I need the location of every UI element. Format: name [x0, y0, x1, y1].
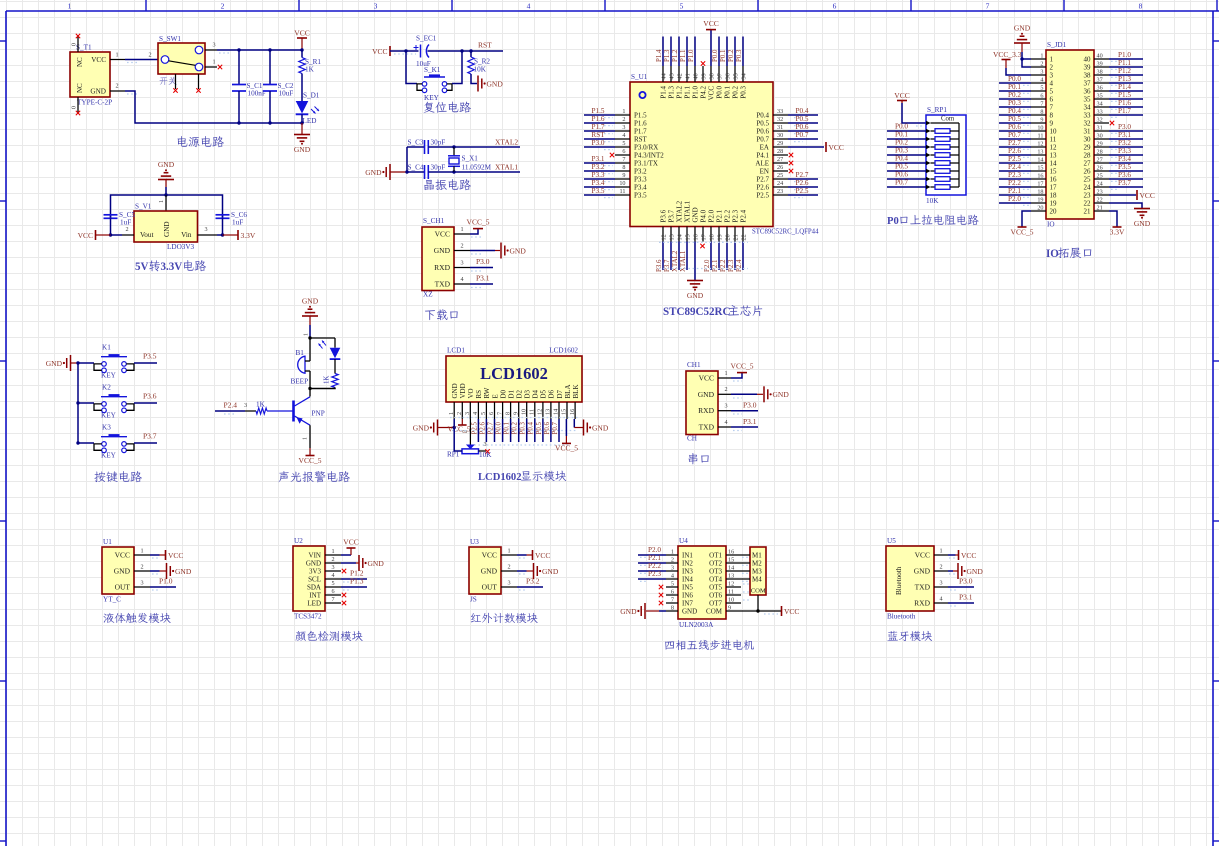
svg-text:35: 35: [1097, 93, 1103, 100]
junction JD1 pin1 gnd: [1020, 57, 1023, 60]
svg-text:31: 31: [1084, 128, 1092, 136]
svg-text:P4.1: P4.1: [756, 152, 769, 160]
svg-text:S_X1: S_X1: [462, 155, 479, 163]
svg-text:P2.2: P2.2: [1008, 179, 1021, 187]
wire CH1 pin4 P3.1: [731, 426, 758, 428]
power port VCC top: [301, 38, 303, 50]
svg-text:BEEP: BEEP: [291, 378, 309, 386]
svg-text:GND: GND: [413, 423, 430, 432]
svg-text:P3.3: P3.3: [634, 176, 647, 184]
svg-text:XZ: XZ: [423, 291, 433, 299]
svg-text:1uF: 1uF: [120, 219, 131, 227]
svg-text:S_JD1: S_JD1: [1047, 41, 1067, 49]
svg-text:GND: GND: [46, 359, 63, 368]
svg-text:3: 3: [212, 42, 215, 49]
S_JD1 pin 32 no-connect: [1110, 121, 1114, 125]
svg-text:16: 16: [728, 549, 734, 556]
svg-text:P3.1: P3.1: [743, 417, 757, 426]
S_SW1 value 开关: [160, 77, 168, 85]
svg-text:38: 38: [1084, 72, 1092, 80]
svg-text:GND: GND: [967, 567, 984, 576]
U2 pin7 no-connect: [342, 601, 346, 605]
svg-text:OT5: OT5: [709, 584, 722, 592]
svg-text:P3.6: P3.6: [1118, 171, 1131, 179]
power port GND alarm top: [302, 315, 318, 317]
svg-text:4: 4: [724, 419, 727, 426]
svg-text:21: 21: [1084, 208, 1092, 216]
svg-text:P3.7: P3.7: [664, 259, 671, 272]
svg-text:LCD1602: LCD1602: [480, 364, 548, 383]
driver U4 ULN2003A body: [678, 546, 726, 619]
wire GND stem to top rail: [165, 180, 167, 188]
svg-text:2: 2: [331, 556, 334, 563]
svg-text:Bluetooth: Bluetooth: [895, 566, 903, 595]
svg-text:0: 0: [71, 43, 78, 46]
svg-text:14: 14: [553, 409, 560, 415]
U2 pin3 no-connect: [342, 569, 346, 573]
wire U4 GND pin8: [659, 610, 666, 612]
svg-text:P0.5: P0.5: [756, 120, 769, 128]
svg-text:43: 43: [669, 73, 676, 79]
svg-text:6: 6: [1050, 96, 1054, 104]
S_U1 pins 28 27 26 no-connect: [789, 153, 793, 173]
svg-text:12: 12: [728, 581, 734, 588]
title 下载口: [425, 310, 435, 320]
svg-text:P1.0: P1.0: [1118, 51, 1131, 59]
svg-text:P3.1: P3.1: [959, 593, 973, 602]
svg-text:P2.4: P2.4: [1008, 163, 1021, 171]
wire JD1 pin23 to VCC: [1109, 194, 1136, 196]
svg-text:VCC: VCC: [961, 551, 976, 560]
svg-text:10: 10: [1037, 125, 1043, 132]
svg-text:P1.0: P1.0: [159, 577, 173, 586]
svg-text:ALE: ALE: [755, 160, 769, 168]
svg-text:P4.2: P4.2: [700, 86, 708, 99]
svg-text:OUT: OUT: [115, 583, 131, 592]
wire bus to K3: [78, 442, 94, 444]
svg-text:OUT: OUT: [482, 583, 498, 592]
svg-text:P0.2: P0.2: [728, 49, 735, 62]
U4 right stubs and numbers 16-9: [726, 549, 741, 612]
svg-text:RP1: RP1: [447, 451, 460, 459]
svg-text:VCC_5: VCC_5: [1011, 228, 1034, 237]
wire LCD pin3 VO to pot wiper: [469, 419, 471, 445]
svg-text:IN4: IN4: [682, 576, 693, 584]
wire R2 to GND: [471, 74, 477, 84]
junction reset left: [404, 49, 407, 52]
svg-text:11: 11: [1038, 133, 1044, 140]
svg-text:20: 20: [1050, 208, 1058, 216]
svg-text:10K: 10K: [479, 451, 492, 459]
svg-text:0: 0: [71, 106, 78, 109]
svg-text:5: 5: [671, 581, 674, 588]
svg-text:GND: GND: [914, 567, 931, 576]
svg-text:P2.3: P2.3: [1008, 171, 1021, 179]
svg-text:22: 22: [1097, 197, 1103, 204]
svg-text:IO: IO: [1047, 221, 1055, 229]
svg-text:8: 8: [504, 412, 511, 415]
S_U1 bottom pin stubs and numbers 12-22: [661, 227, 748, 242]
svg-text:P1.4: P1.4: [660, 86, 668, 99]
RP1 pot no-connect pin 3: [485, 449, 489, 453]
svg-text:36: 36: [1097, 85, 1103, 92]
S_CH1 pin names: [434, 230, 451, 289]
LED S_D1: [296, 101, 319, 114]
svg-text:P0.0: P0.0: [496, 421, 503, 434]
svg-text:3: 3: [460, 259, 463, 266]
potentiometer RP1 10K: [454, 428, 486, 454]
svg-text:1: 1: [671, 549, 674, 556]
svg-text:6: 6: [488, 412, 495, 415]
U1 pin names: [114, 551, 131, 592]
svg-text:3: 3: [507, 580, 510, 587]
power port 3.3V JD1 bottom: [1113, 226, 1122, 228]
power port GND chip bottom: [687, 280, 703, 282]
svg-text:TXD: TXD: [435, 280, 451, 289]
svg-text:33: 33: [1097, 109, 1103, 116]
svg-text:2: 2: [507, 564, 510, 571]
svg-text:5: 5: [1040, 85, 1043, 92]
junction reset right: [460, 49, 463, 52]
svg-text:15: 15: [1050, 168, 1058, 176]
svg-text:4: 4: [622, 132, 625, 139]
power port VCC U3: [532, 550, 534, 560]
svg-text:5: 5: [622, 140, 625, 147]
svg-text:39: 39: [701, 73, 708, 79]
junction node A: [308, 336, 311, 339]
svg-text:VCC_5: VCC_5: [299, 456, 322, 465]
svg-text:8: 8: [671, 605, 674, 612]
mcu S_U1 STC89C52RC body: [630, 82, 773, 227]
power port GND download: [500, 243, 502, 259]
svg-text:30: 30: [777, 132, 783, 139]
svg-text:GND: GND: [592, 423, 609, 432]
wire U5 TXD P3.0: [948, 586, 974, 588]
wire U1 pin1 to VCC: [150, 554, 160, 556]
svg-text:D3: D3: [524, 389, 532, 398]
svg-text:P0.5: P0.5: [796, 115, 809, 123]
wire left vertical: [406, 147, 408, 172]
wire XZ pin4 P3.1: [470, 283, 493, 285]
svg-text:P0.3: P0.3: [740, 86, 748, 99]
svg-text:P3.4: P3.4: [634, 184, 647, 192]
svg-text:VCC: VCC: [1140, 191, 1155, 200]
svg-text:1: 1: [939, 548, 942, 555]
svg-text:28: 28: [1084, 152, 1092, 160]
svg-text:20: 20: [725, 234, 732, 240]
junction LCD gnd pot: [453, 426, 456, 429]
power port GND LCD right: [583, 420, 585, 436]
wire XZ pin2 to GND: [470, 250, 495, 252]
svg-text:14: 14: [728, 565, 734, 572]
power port VCC_5 serial: [737, 372, 747, 374]
svg-text:29: 29: [1084, 144, 1092, 152]
wire VCC_3.3 to JD1 pin3: [1006, 60, 1031, 76]
regulator S_V1 LDO3V3 body: [134, 211, 198, 242]
svg-text:P2.5: P2.5: [1008, 155, 1021, 163]
svg-text:40: 40: [1084, 56, 1092, 64]
svg-text:9: 9: [728, 605, 731, 612]
svg-text:VCC_5: VCC_5: [731, 362, 754, 371]
svg-text:P0.7: P0.7: [1008, 131, 1021, 139]
connector S_T1 TYPE-C-2P body: [70, 52, 110, 97]
svg-text:K1: K1: [102, 344, 111, 352]
svg-text:VCC: VCC: [168, 551, 183, 560]
display LCD1 body: [446, 356, 582, 402]
S_T1 pin 2 GND stub: [110, 90, 125, 92]
svg-text:14: 14: [677, 234, 684, 240]
svg-text:K3: K3: [102, 424, 111, 432]
svg-text:4: 4: [1040, 77, 1043, 84]
svg-text:37: 37: [717, 73, 724, 79]
transistor Q1 PNP: [294, 397, 311, 425]
svg-text:GND: GND: [294, 145, 311, 154]
svg-text:OT4: OT4: [709, 576, 722, 584]
svg-text:6: 6: [671, 589, 674, 596]
svg-text:2: 2: [456, 412, 463, 415]
svg-text:13: 13: [1037, 149, 1043, 156]
S_V1 pin 2 Vout stub: [122, 234, 134, 236]
power port GND above LDO: [158, 179, 174, 181]
regulator S_V1 pin GND stub: [165, 195, 167, 211]
S_SW1 pin 3 stub: [205, 49, 217, 51]
S_V1 pin 3 Vin stub: [198, 234, 218, 236]
svg-text:13: 13: [1050, 152, 1058, 160]
power port GND U2: [358, 555, 360, 571]
svg-text:RST: RST: [478, 41, 492, 50]
junction button bus K2: [76, 401, 79, 404]
svg-text:1: 1: [158, 200, 165, 203]
svg-text:P2.4: P2.4: [736, 259, 743, 272]
svg-text:2: 2: [460, 242, 463, 249]
svg-text:CH: CH: [687, 435, 697, 443]
junction GND rail at C1: [237, 121, 240, 124]
svg-text:P0.6: P0.6: [1008, 123, 1021, 131]
svg-text:GND: GND: [434, 246, 451, 255]
S_U1 left net wires and labels: [584, 107, 615, 198]
svg-text:GND: GND: [302, 297, 319, 306]
svg-text:S_C4: S_C4: [408, 164, 424, 172]
junction GND rail at C2: [268, 121, 271, 124]
svg-text:D0: D0: [499, 389, 507, 398]
svg-text:12: 12: [1050, 144, 1058, 152]
module U1 body: [102, 547, 134, 594]
svg-text:D2: D2: [516, 389, 524, 398]
svg-text:31: 31: [1097, 125, 1103, 132]
svg-text:2: 2: [115, 83, 118, 90]
svg-text:25: 25: [1097, 173, 1103, 180]
svg-text:P0.5: P0.5: [536, 421, 543, 434]
crystal S_X1 11.0592M: [448, 147, 460, 172]
svg-text:P1.3: P1.3: [1118, 75, 1131, 83]
power port VCC at EA: [825, 142, 827, 152]
svg-text:36: 36: [1084, 88, 1092, 96]
svg-text:12: 12: [537, 409, 544, 415]
svg-text:D1: D1: [507, 389, 515, 398]
wire buzzer to collector: [309, 371, 311, 397]
svg-text:P1.5: P1.5: [1118, 91, 1131, 99]
svg-text:15: 15: [1037, 165, 1043, 172]
S_U1 top pin stubs and numbers 44-34: [661, 66, 748, 82]
wire D1 to GND rail: [301, 114, 303, 123]
CH1 pin stubs and numbers: [718, 370, 731, 427]
svg-text:30pF: 30pF: [431, 164, 446, 172]
svg-text:GND: GND: [114, 567, 131, 576]
motor COM pin wire: [757, 595, 759, 611]
wire P2.4 to base resistor: [215, 410, 245, 412]
S_U1 bottom dot hints: [659, 242, 748, 268]
svg-text:GND: GND: [451, 383, 459, 398]
svg-text:OT1: OT1: [709, 552, 722, 560]
svg-text:RXD: RXD: [914, 599, 930, 608]
svg-text:GND: GND: [620, 607, 637, 616]
svg-text:P2.1: P2.1: [1008, 187, 1021, 195]
wire Vout to VCC port: [111, 234, 123, 236]
svg-text:10: 10: [619, 180, 625, 187]
svg-text:S_K1: S_K1: [424, 66, 441, 74]
wire U5 GND: [948, 570, 953, 572]
S_SW1 contacts: [161, 46, 203, 71]
svg-text:20: 20: [1037, 205, 1043, 212]
svg-text:2: 2: [140, 564, 143, 571]
svg-text:1K: 1K: [305, 66, 315, 74]
svg-text:D6: D6: [548, 389, 556, 398]
svg-text:KEY: KEY: [101, 412, 117, 420]
svg-text:28: 28: [777, 148, 783, 155]
svg-text:3: 3: [724, 403, 727, 410]
svg-text:35: 35: [1084, 96, 1092, 104]
svg-text:2: 2: [148, 52, 151, 59]
title 晶振电路: [424, 180, 433, 190]
svg-text:6: 6: [1040, 93, 1043, 100]
svg-text:3.3V: 3.3V: [160, 261, 182, 273]
svg-text:IN5: IN5: [682, 584, 693, 592]
svg-text:3.3V: 3.3V: [1110, 228, 1125, 237]
svg-text:S_U1: S_U1: [631, 73, 648, 81]
svg-text:5: 5: [1050, 88, 1054, 96]
svg-text:19: 19: [717, 234, 724, 240]
svg-text:4: 4: [1050, 80, 1054, 88]
S_U1 top net wires and labels: [656, 37, 743, 67]
svg-text:4: 4: [671, 573, 674, 580]
wire JD1 pin21 to 3.3V: [1109, 211, 1117, 227]
wire LCD pin15 BLA to VCC_5: [555, 419, 578, 453]
svg-text:3: 3: [671, 565, 674, 572]
svg-text:P0.2: P0.2: [895, 139, 908, 147]
svg-text:P3.0: P3.0: [1118, 123, 1131, 131]
svg-text:11: 11: [728, 589, 734, 596]
wire key right up to RST node: [452, 51, 462, 84]
svg-text:13: 13: [728, 573, 734, 580]
svg-text:VCC: VCC: [699, 374, 714, 383]
wire Vin to 3.3V port: [217, 234, 223, 236]
svg-text:P0.5: P0.5: [895, 163, 908, 171]
svg-text:30: 30: [1084, 136, 1092, 144]
wire K2 to net: [134, 402, 157, 404]
svg-text:7: 7: [1050, 104, 1054, 112]
svg-text:SCL: SCL: [308, 576, 321, 584]
svg-text:1K: 1K: [256, 401, 266, 409]
svg-text:7: 7: [986, 2, 990, 11]
svg-text:TXD: TXD: [915, 583, 931, 592]
svg-text:COM: COM: [751, 588, 766, 595]
svg-text:IO: IO: [1046, 248, 1059, 260]
S_T1 top pin 0 no-connect: [77, 35, 79, 52]
S_U1 bottom pin names: [660, 200, 748, 222]
S_JD1 left stubs and outer numbers: [1031, 53, 1046, 212]
svg-text:23: 23: [1084, 192, 1092, 200]
svg-text:P3.6: P3.6: [143, 392, 157, 401]
svg-text:10: 10: [520, 409, 527, 415]
svg-text:23: 23: [777, 188, 783, 195]
svg-text:S_RP1: S_RP1: [927, 106, 947, 114]
svg-text:P0.4: P0.4: [796, 107, 809, 115]
power port GND JD1 right: [1134, 208, 1150, 210]
svg-text:29: 29: [1097, 141, 1103, 148]
LCD1 pin stubs and numbers 1-16: [448, 402, 576, 419]
S_V1 pin names: [140, 221, 192, 239]
svg-text:P0.0: P0.0: [895, 123, 908, 131]
junction COM node: [756, 609, 759, 612]
svg-text:P0.1: P0.1: [504, 421, 511, 434]
svg-text:IN1: IN1: [682, 552, 693, 560]
svg-text:9: 9: [622, 172, 625, 179]
svg-text:P2.5: P2.5: [796, 187, 809, 195]
svg-text:1: 1: [622, 108, 625, 115]
svg-text:Vin: Vin: [181, 231, 192, 239]
svg-text:RST: RST: [591, 131, 605, 139]
svg-text:LED: LED: [307, 600, 321, 608]
svg-text:VCC_5: VCC_5: [555, 444, 578, 453]
svg-text:GND: GND: [698, 390, 715, 399]
svg-text:P3.7: P3.7: [668, 209, 676, 222]
S_U1 pin 6 no-connect: [610, 153, 614, 157]
svg-text:D5: D5: [540, 389, 548, 398]
svg-text:M2: M2: [752, 560, 762, 568]
svg-text:GND: GND: [510, 246, 527, 255]
capacitor S_C3 30pF: [407, 140, 454, 154]
wire U3 pin3 P3.2: [517, 586, 543, 588]
svg-text:VCC_5: VCC_5: [467, 218, 490, 227]
svg-text:27: 27: [777, 156, 783, 163]
svg-text:11: 11: [529, 409, 536, 415]
svg-text:30: 30: [1097, 133, 1103, 140]
capacitor S_C5 1uF: [110, 215, 112, 218]
svg-text:P3.5: P3.5: [592, 187, 605, 195]
svg-text:4: 4: [472, 412, 479, 415]
power port VCC left: [95, 230, 97, 240]
wire U2 SCL P1.2: [341, 578, 367, 580]
svg-text:XTAL1: XTAL1: [495, 163, 518, 172]
svg-text:P0.4: P0.4: [1008, 107, 1021, 115]
svg-text:GND: GND: [692, 207, 700, 222]
svg-text:1: 1: [448, 412, 455, 415]
S_U1 pin 17 no-connect: [700, 244, 704, 248]
svg-text:35: 35: [733, 73, 740, 79]
svg-text:6: 6: [833, 2, 837, 11]
S_JD1 left net wires and labels: [999, 75, 1031, 206]
power port GND crystal: [389, 164, 391, 180]
svg-text:42: 42: [677, 73, 684, 79]
svg-text:P0.1: P0.1: [1008, 83, 1021, 91]
svg-text:TCS3472: TCS3472: [294, 613, 322, 621]
wire GND to rails: [390, 171, 407, 173]
power port GND U4: [644, 603, 646, 619]
module U3 body: [469, 547, 501, 594]
svg-text:STC89C52RC: STC89C52RC: [663, 306, 730, 318]
svg-text:P0.4: P0.4: [528, 421, 535, 434]
svg-text:IN6: IN6: [682, 592, 693, 600]
